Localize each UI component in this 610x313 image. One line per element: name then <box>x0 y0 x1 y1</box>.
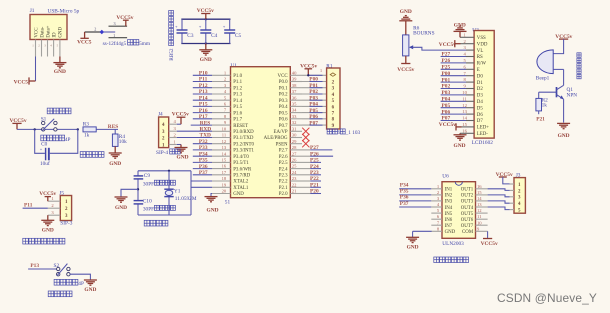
svg-text:3: 3 <box>114 21 116 26</box>
svg-text:P13: P13 <box>30 263 39 269</box>
svg-text:12: 12 <box>222 139 227 144</box>
svg-text:GND: GND <box>454 23 466 29</box>
svg-text:GND: GND <box>54 69 66 75</box>
svg-text:1: 1 <box>113 33 115 38</box>
svg-text:P03: P03 <box>442 90 451 96</box>
svg-text:GND: GND <box>109 161 121 167</box>
svg-text:27: 27 <box>292 151 297 156</box>
svg-text:18: 18 <box>222 176 227 181</box>
svg-text:D0: D0 <box>477 74 484 79</box>
svg-text:P3.3/INT1: P3.3/INT1 <box>233 149 254 154</box>
svg-text:P3.5/T1: P3.5/T1 <box>233 161 249 166</box>
svg-text:P07: P07 <box>442 116 451 122</box>
svg-text:P01: P01 <box>442 77 451 83</box>
svg-text:P0.4: P0.4 <box>279 105 288 110</box>
svg-text:D5: D5 <box>477 106 484 111</box>
svg-text:XTAL1: XTAL1 <box>233 186 249 191</box>
svg-text:P20: P20 <box>310 189 319 195</box>
svg-text:11.0592M: 11.0592M <box>175 196 197 202</box>
svg-text:P1.2: P1.2 <box>233 86 242 91</box>
svg-text:D7: D7 <box>477 119 484 124</box>
svg-text:VCC5v: VCC5v <box>397 67 414 73</box>
svg-text:P00: P00 <box>442 71 451 77</box>
svg-text:P07: P07 <box>309 120 318 126</box>
svg-text:GND: GND <box>233 192 244 197</box>
svg-text:LCD1602: LCD1602 <box>472 140 494 146</box>
svg-text:P3.7/RD: P3.7/RD <box>233 174 250 179</box>
svg-text:P13: P13 <box>199 89 208 95</box>
svg-text:Data-: Data- <box>40 26 45 37</box>
svg-text:16: 16 <box>462 128 467 133</box>
svg-text:C9: C9 <box>144 173 151 179</box>
svg-text:GND: GND <box>207 208 219 214</box>
svg-text:P11: P11 <box>199 77 208 83</box>
svg-text:25: 25 <box>292 164 297 169</box>
svg-text:GND: GND <box>400 9 412 15</box>
svg-text:NPN: NPN <box>567 92 578 98</box>
svg-text:13: 13 <box>462 109 467 114</box>
svg-text:IN6: IN6 <box>445 218 453 223</box>
svg-text:C10: C10 <box>143 199 152 205</box>
svg-text:GND: GND <box>445 230 456 235</box>
svg-text:16: 16 <box>222 164 227 169</box>
svg-text:10k: 10k <box>119 139 127 145</box>
svg-text:P0.6: P0.6 <box>279 118 288 123</box>
svg-text:P3.1/TXD: P3.1/TXD <box>233 136 254 141</box>
svg-text:P01: P01 <box>309 83 318 89</box>
svg-text:14: 14 <box>462 116 467 121</box>
svg-text:12: 12 <box>462 103 467 108</box>
svg-text:OUT3: OUT3 <box>461 200 474 205</box>
svg-text:P34: P34 <box>199 151 208 157</box>
svg-text:XTAL2: XTAL2 <box>233 180 249 185</box>
svg-text:OUT6: OUT6 <box>461 218 474 223</box>
svg-text:P2.0: P2.0 <box>279 192 288 197</box>
svg-text:VCC5v: VCC5v <box>439 122 456 128</box>
svg-text:13: 13 <box>222 145 227 150</box>
svg-text:P21: P21 <box>310 183 319 189</box>
svg-text:P12: P12 <box>199 83 208 89</box>
svg-text:ALE/PROG: ALE/PROG <box>264 136 288 141</box>
svg-text:ss-12f44g5: ss-12f44g5 <box>103 40 127 47</box>
svg-text:P02: P02 <box>309 89 318 95</box>
svg-text:P04: P04 <box>309 102 318 108</box>
svg-text:P1.5: P1.5 <box>233 105 242 110</box>
svg-text:12: 12 <box>477 208 482 213</box>
svg-text:P1.0: P1.0 <box>233 74 242 79</box>
svg-text:SIP-4: SIP-4 <box>156 150 168 156</box>
svg-text:VSS: VSS <box>477 36 486 41</box>
svg-text:22: 22 <box>292 182 297 187</box>
svg-text:P2.1: P2.1 <box>279 186 288 191</box>
svg-text:VDD: VDD <box>477 42 488 47</box>
svg-text:TXD: TXD <box>200 133 211 139</box>
svg-text:R/W: R/W <box>477 62 487 67</box>
svg-text:SIP-3: SIP-3 <box>60 220 72 226</box>
svg-text:D2: D2 <box>477 87 484 92</box>
svg-text:P2.5: P2.5 <box>279 161 288 166</box>
svg-text:2: 2 <box>94 27 96 32</box>
svg-text:P2.2: P2.2 <box>279 180 288 185</box>
svg-text:30PF: 30PF <box>143 207 154 213</box>
svg-text:P15: P15 <box>199 102 208 108</box>
svg-text:4P: 4P <box>78 281 84 287</box>
svg-text:P3.6/WR: P3.6/WR <box>233 167 252 172</box>
svg-text:P0.0: P0.0 <box>279 80 288 85</box>
svg-text:29: 29 <box>292 139 297 144</box>
svg-text:P06: P06 <box>309 114 318 120</box>
svg-text:1k: 1k <box>84 132 90 138</box>
svg-text:IN2: IN2 <box>445 194 453 199</box>
svg-text:P2.3: P2.3 <box>279 174 288 179</box>
svg-text:P14: P14 <box>199 95 208 101</box>
svg-text:14: 14 <box>477 196 482 201</box>
svg-text:31: 31 <box>292 126 297 131</box>
svg-text:OUT4: OUT4 <box>461 206 474 211</box>
svg-text:GND: GND <box>454 143 466 149</box>
svg-text:P33: P33 <box>199 145 208 151</box>
svg-text:RES: RES <box>108 124 119 130</box>
svg-text:OUT1: OUT1 <box>461 188 474 193</box>
svg-text:P3.4/T0: P3.4/T0 <box>233 155 249 160</box>
svg-text:P06: P06 <box>442 109 451 115</box>
svg-text:D1: D1 <box>477 81 484 86</box>
svg-text:P1.7: P1.7 <box>233 118 242 123</box>
svg-text:IN1: IN1 <box>445 188 453 193</box>
svg-text:19: 19 <box>222 182 227 187</box>
svg-text:P34: P34 <box>400 183 409 189</box>
svg-text:VCC5v: VCC5v <box>481 241 498 247</box>
svg-text:OUT2: OUT2 <box>461 194 474 199</box>
svg-text:P00: P00 <box>309 77 318 83</box>
svg-text:P3.0/RXD: P3.0/RXD <box>233 130 254 135</box>
svg-text:17: 17 <box>222 170 227 175</box>
svg-text:51: 51 <box>225 200 231 206</box>
svg-text:RES: RES <box>200 120 211 126</box>
svg-text:PSEN: PSEN <box>276 142 288 147</box>
svg-text:Beep1: Beep1 <box>536 76 550 82</box>
svg-text:32: 32 <box>292 120 297 125</box>
svg-text:RXD: RXD <box>200 127 212 133</box>
svg-text:10: 10 <box>462 90 467 95</box>
svg-text:GND: GND <box>115 205 127 211</box>
svg-text:J1: J1 <box>30 8 35 14</box>
svg-text:P35: P35 <box>199 158 208 164</box>
svg-text:5mm: 5mm <box>139 41 151 47</box>
svg-text:P25: P25 <box>442 65 451 71</box>
svg-text:GND: GND <box>84 287 96 293</box>
svg-text:IN3: IN3 <box>445 200 453 205</box>
svg-text:P26: P26 <box>310 151 319 157</box>
svg-text:ULN2003: ULN2003 <box>442 241 464 247</box>
svg-text:1k: 1k <box>542 103 548 109</box>
svg-text:11: 11 <box>222 133 227 138</box>
svg-text:10: 10 <box>222 126 227 131</box>
svg-text:VCC5v: VCC5v <box>172 111 189 117</box>
svg-text:P22: P22 <box>310 176 319 182</box>
svg-text:P2.6: P2.6 <box>279 155 288 160</box>
svg-text:10uf: 10uf <box>40 160 50 167</box>
svg-text:R3: R3 <box>83 122 90 128</box>
svg-text:GND: GND <box>59 27 64 38</box>
svg-text:+: + <box>223 24 226 29</box>
svg-text:P1.3: P1.3 <box>233 93 242 98</box>
svg-text:39: 39 <box>292 77 297 82</box>
svg-text:34: 34 <box>292 108 297 113</box>
svg-text:P03: P03 <box>309 95 318 101</box>
svg-text:GND: GND <box>177 154 189 160</box>
svg-text:P05: P05 <box>442 103 451 109</box>
svg-text:LED-: LED- <box>477 132 489 137</box>
svg-text:P17: P17 <box>199 114 208 120</box>
svg-text:P0.5: P0.5 <box>279 111 288 116</box>
svg-text:_1 103: _1 103 <box>345 130 361 136</box>
svg-text:OUT7: OUT7 <box>461 224 474 229</box>
svg-text:4P: 4P <box>65 137 71 143</box>
svg-text:+: + <box>199 24 202 29</box>
svg-text:P27: P27 <box>310 145 319 151</box>
svg-text:38: 38 <box>292 83 297 88</box>
svg-text:IN7: IN7 <box>445 224 453 229</box>
svg-text:35: 35 <box>292 102 297 107</box>
svg-text:11: 11 <box>462 96 467 101</box>
svg-text:GND: GND <box>42 227 54 233</box>
svg-text:VL: VL <box>477 49 484 54</box>
svg-text:11: 11 <box>477 214 482 219</box>
svg-text:RB52: RB52 <box>169 48 175 61</box>
svg-text:BOURNS: BOURNS <box>413 31 435 37</box>
svg-text:26: 26 <box>292 158 297 163</box>
svg-text:P1.6: P1.6 <box>233 111 242 116</box>
svg-text:Y1: Y1 <box>174 189 181 195</box>
svg-text:P05: P05 <box>309 108 318 114</box>
svg-text:P1.1: P1.1 <box>233 80 242 85</box>
svg-text:10: 10 <box>477 220 482 225</box>
svg-text:Data+: Data+ <box>46 25 51 37</box>
svg-text:C3: C3 <box>187 33 194 39</box>
svg-text:GND: GND <box>558 133 570 139</box>
svg-text:14: 14 <box>222 151 227 156</box>
svg-text:ID: ID <box>52 32 57 38</box>
svg-text:30: 30 <box>292 133 297 138</box>
svg-text:P11: P11 <box>24 203 33 209</box>
svg-text:D6: D6 <box>477 113 484 118</box>
svg-text:+: + <box>175 24 178 29</box>
svg-text:P16: P16 <box>199 108 208 114</box>
svg-text:21: 21 <box>292 189 297 194</box>
svg-text:COM: COM <box>462 230 474 235</box>
svg-text:P1.4: P1.4 <box>233 99 242 104</box>
svg-text:VCC: VCC <box>278 74 288 79</box>
svg-text:P2.4: P2.4 <box>279 167 288 172</box>
svg-text:P23: P23 <box>310 170 319 176</box>
svg-text:P0.2: P0.2 <box>279 93 288 98</box>
svg-text:P0.1: P0.1 <box>279 86 288 91</box>
svg-text:IN4: IN4 <box>445 206 453 211</box>
svg-text:37: 37 <box>292 89 297 94</box>
svg-text:P36: P36 <box>400 195 409 201</box>
svg-text:15: 15 <box>462 122 467 127</box>
svg-text:VCC: VCC <box>34 28 39 38</box>
svg-text:P04: P04 <box>442 97 451 103</box>
svg-text:P02: P02 <box>442 84 451 90</box>
svg-text:P36: P36 <box>199 164 208 170</box>
svg-text:LED+: LED+ <box>477 126 490 131</box>
svg-text:C4: C4 <box>211 33 218 39</box>
svg-text:P0.3: P0.3 <box>279 99 288 104</box>
svg-text:P25: P25 <box>310 158 319 164</box>
svg-text:16: 16 <box>477 184 482 189</box>
svg-text:40: 40 <box>292 70 297 75</box>
svg-text:GND: GND <box>407 244 419 250</box>
svg-text:13: 13 <box>477 202 482 207</box>
svg-text:D3: D3 <box>477 94 484 99</box>
svg-text:24: 24 <box>292 170 297 175</box>
svg-text:P2.7: P2.7 <box>279 149 288 154</box>
svg-text:15: 15 <box>222 158 227 163</box>
svg-text:IN5: IN5 <box>445 212 453 217</box>
svg-text:USB-Micro 5p: USB-Micro 5p <box>48 8 80 14</box>
svg-text:VCC5v: VCC5v <box>439 42 456 48</box>
svg-text:U6: U6 <box>442 173 449 179</box>
svg-text:P21: P21 <box>536 116 545 122</box>
svg-text:20: 20 <box>222 189 227 194</box>
svg-text:23: 23 <box>292 176 297 181</box>
svg-text:RS: RS <box>477 55 483 60</box>
svg-text:36: 36 <box>292 95 297 100</box>
svg-text:30PF: 30PF <box>143 181 154 187</box>
svg-text:C5: C5 <box>235 33 242 39</box>
svg-text:P24: P24 <box>310 164 319 170</box>
svg-text:CSDN @Nueve_Y: CSDN @Nueve_Y <box>497 291 597 305</box>
svg-text:P10: P10 <box>199 71 208 77</box>
svg-text:VCC5: VCC5 <box>14 79 29 85</box>
svg-text:33: 33 <box>292 114 297 119</box>
svg-text:VCC5v: VCC5v <box>116 15 133 21</box>
svg-text:28: 28 <box>292 145 297 150</box>
svg-text:E: E <box>477 68 480 73</box>
svg-text:P3.2/INT0: P3.2/INT0 <box>233 142 254 147</box>
svg-text:VCC5: VCC5 <box>77 40 92 46</box>
svg-text:VCC5v: VCC5v <box>197 8 214 14</box>
svg-text:RESET: RESET <box>233 124 248 129</box>
svg-text:P37: P37 <box>199 170 208 176</box>
svg-text:P0.7: P0.7 <box>279 124 288 129</box>
svg-text:P26: P26 <box>442 58 451 64</box>
svg-text:P37: P37 <box>400 201 409 207</box>
svg-text:GND: GND <box>200 57 212 63</box>
svg-text:EA/VP: EA/VP <box>273 130 287 135</box>
svg-text:P32: P32 <box>199 139 208 145</box>
svg-text:D4: D4 <box>477 100 484 105</box>
svg-text:OUT5: OUT5 <box>461 212 474 217</box>
svg-text:15: 15 <box>477 190 482 195</box>
svg-text:P27: P27 <box>442 52 451 58</box>
